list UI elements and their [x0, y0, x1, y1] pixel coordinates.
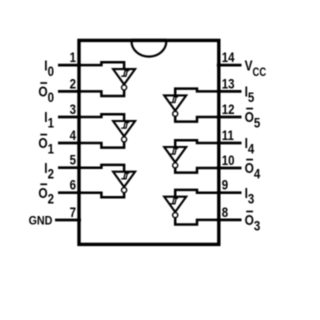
svg-text:2: 2 [70, 77, 76, 92]
inverter U1C (I2->O2) (Schmitt trigger) [113, 172, 135, 187]
overline for O5 [246, 108, 253, 110]
wire output net of U1A (I0->O0) [79, 90, 124, 96]
pin 1 lead [58, 64, 81, 67]
overline for O1 [40, 134, 47, 136]
svg-text:GND: GND [29, 215, 53, 228]
svg-text:4: 4 [70, 128, 76, 143]
output bubble of U1F (I5->O5) [173, 111, 178, 116]
wire input net of U1F (I5->O5) [175, 89, 219, 96]
wire input net of U1A (I0->O0) [79, 62, 124, 69]
overline for O4 [246, 159, 253, 161]
inverter U1B (I1->O1) (Schmitt trigger) [113, 121, 135, 136]
pin 14 lead [217, 64, 242, 67]
svg-text:10: 10 [222, 153, 235, 168]
inverter U1F (I5->O5) (Schmitt trigger) [164, 95, 186, 110]
pin 6 lead [58, 191, 81, 194]
pin 5 lead [58, 166, 81, 169]
pin 2 lead [58, 90, 81, 93]
svg-text:13: 13 [222, 77, 235, 92]
wire output net of U1B (I1->O1) [79, 142, 124, 148]
pin 10 lead [217, 167, 242, 170]
output bubble of U1D (I3->O3) [173, 213, 178, 218]
wire input net of U1B (I1->O1) [79, 114, 124, 121]
svg-text:7: 7 [70, 205, 76, 220]
overline for O0 [40, 82, 47, 84]
overline for O3 [246, 211, 253, 213]
pin 12 lead [217, 116, 242, 119]
pin 8 lead [217, 219, 242, 222]
svg-text:14: 14 [222, 50, 235, 65]
wire output net of U1E (I4->O4) [175, 168, 219, 173]
output bubble of U1B (I1->O1) [122, 137, 127, 142]
output bubble of U1C (I2->O2) [122, 188, 127, 193]
pin 4 lead [58, 142, 81, 145]
svg-text:9: 9 [222, 178, 228, 193]
wire output net of U1D (I3->O3) [175, 218, 219, 225]
overline for O2 [40, 183, 47, 185]
svg-text:1: 1 [70, 50, 76, 65]
inverter U1E (I4->O4) (Schmitt trigger) [164, 147, 186, 162]
pin 7 lead [55, 219, 81, 222]
svg-text:6: 6 [70, 178, 76, 193]
inverter U1D (I3->O3) (Schmitt trigger) [164, 197, 186, 212]
pin-1 end notch [132, 41, 167, 56]
svg-text:3: 3 [70, 102, 76, 117]
wire output net of U1F (I5->O5) [175, 116, 219, 121]
pin 3 lead [58, 116, 81, 119]
pin 11 lead [217, 142, 242, 145]
output bubble of U1E (I4->O4) [173, 163, 178, 168]
wire input net of U1D (I3->O3) [175, 190, 219, 197]
svg-text:12: 12 [222, 102, 235, 117]
pin 9 lead [217, 191, 242, 194]
output bubble of U1A (I0->O0) [122, 85, 127, 90]
svg-text:11: 11 [222, 128, 234, 143]
inverter U1A (I0->O0) (Schmitt trigger) [113, 69, 135, 84]
svg-text:8: 8 [222, 205, 228, 220]
pin 13 lead [217, 90, 242, 93]
wire output net of U1C (I2->O2) [79, 193, 124, 198]
IC body outline [79, 40, 219, 244]
wire input net of U1C (I2->O2) [79, 165, 124, 172]
wire input net of U1E (I4->O4) [175, 140, 219, 147]
svg-text:5: 5 [70, 153, 76, 168]
